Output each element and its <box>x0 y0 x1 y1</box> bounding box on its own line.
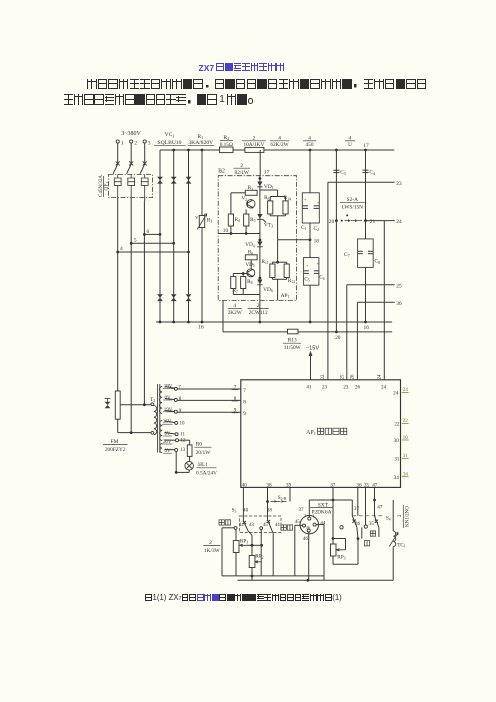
lamp HL1 <box>185 462 194 471</box>
wire 44b branch <box>271 531 274 533</box>
wire conn right <box>316 524 324 526</box>
transformer T2 secondary b <box>160 421 163 441</box>
svg-text:8: 8 <box>243 399 246 405</box>
svg-text:30: 30 <box>394 438 400 444</box>
svg-text:7: 7 <box>243 388 246 394</box>
switch S4 contact a <box>352 516 357 528</box>
wire V2 base <box>245 210 247 215</box>
capacitor C1 plates <box>302 205 308 207</box>
svg-text:26: 26 <box>351 374 356 380</box>
svg-text:20: 20 <box>335 335 341 341</box>
svg-text:RP2: RP2 <box>255 554 263 560</box>
svg-text:37: 37 <box>354 506 360 512</box>
contact 45a <box>260 527 263 530</box>
wire V3 base <box>233 273 247 275</box>
wire tap9 <box>165 411 175 412</box>
svg-text:41: 41 <box>306 385 312 391</box>
fuse FU <box>245 147 264 152</box>
svg-text:45: 45 <box>295 519 301 525</box>
svg-text:R6: R6 <box>248 250 253 256</box>
wire phase 1 to breaker <box>117 143 119 162</box>
node 6 <box>143 233 146 236</box>
wire tap10 <box>165 421 175 423</box>
wire tap7 <box>165 387 175 389</box>
wire line 20 <box>223 331 392 333</box>
svg-text:KN1/2NO: KN1/2NO <box>405 506 410 527</box>
capacitor bank C1 C2 frame <box>302 193 319 223</box>
svg-text:R0: R0 <box>196 442 203 448</box>
svg-text:VD6: VD6 <box>263 287 273 293</box>
wire node20 down <box>335 221 337 332</box>
svg-text:V: V <box>195 215 199 220</box>
capacitor C5 plates <box>304 270 309 272</box>
svg-text:26: 26 <box>355 385 361 391</box>
svg-text:3~380V: 3~380V <box>121 131 141 137</box>
wire tap8 <box>165 399 175 400</box>
svg-text:9: 9 <box>243 411 246 417</box>
svg-text:+: + <box>304 197 307 202</box>
svg-text:8: 8 <box>179 397 182 402</box>
bus junction <box>259 149 262 152</box>
svg-text:C6: C6 <box>319 276 324 281</box>
switch S3 box <box>240 516 282 533</box>
wire tap12 <box>165 439 176 441</box>
capacitor bank C5 C6 frame <box>304 258 319 286</box>
wire RP1 bottom <box>235 553 237 576</box>
svg-text:43: 43 <box>249 523 254 528</box>
svg-text:35: 35 <box>364 482 370 488</box>
wire tap12 to R0 <box>179 439 190 441</box>
circuit breaker QF1 box <box>109 175 153 198</box>
svg-text:62K/2W: 62K/2W <box>270 142 288 148</box>
input terminal 2 <box>130 140 133 143</box>
svg-text:2K2W: 2K2W <box>228 310 242 316</box>
svg-text:39: 39 <box>286 482 292 488</box>
svg-text:C3: C3 <box>340 170 346 176</box>
resistor R4 <box>228 214 233 226</box>
svg-text:1K/3W: 1K/3W <box>204 548 220 554</box>
transformer T2 primary <box>151 403 154 406</box>
wire pin39 down <box>289 487 291 501</box>
svg-text:VC1: VC1 <box>165 132 175 138</box>
wire R4 R5 bottoms <box>230 226 232 234</box>
svg-text:24: 24 <box>381 385 387 391</box>
capacitor C7 plates <box>358 250 363 252</box>
wire bus to C1C2 bank <box>309 150 311 193</box>
transistor V3 <box>247 269 255 277</box>
bus junction <box>364 149 367 152</box>
svg-text:37: 37 <box>298 507 304 513</box>
svg-text:21: 21 <box>370 219 376 225</box>
svg-text:40: 40 <box>243 508 249 514</box>
capacitor C8 plates <box>368 250 373 252</box>
wire pin38 down <box>267 487 269 519</box>
resistor R5 <box>244 214 249 226</box>
svg-text:C2: C2 <box>314 226 320 232</box>
svg-text:11/50W: 11/50W <box>284 345 301 351</box>
wire 9 to AP <box>178 411 241 413</box>
capacitor C3 <box>333 169 339 171</box>
fan symbol <box>105 402 111 409</box>
svg-text:R13: R13 <box>288 338 297 344</box>
wire below breaker <box>117 198 119 202</box>
rectifier column 3 <box>188 150 190 322</box>
wire bank2 to bus16 <box>309 285 311 322</box>
resistor R0 <box>187 445 192 457</box>
svg-text:RP3: RP3 <box>337 554 345 560</box>
trigger module B2 box <box>218 176 296 301</box>
connector pin bottom <box>307 529 310 532</box>
svg-text:24: 24 <box>393 391 399 397</box>
suppressor element lower <box>171 294 177 301</box>
breaker thermal element <box>128 175 135 198</box>
transformer T2 secondary a <box>159 387 162 414</box>
suppressor element lower <box>186 294 192 301</box>
svg-text:12: 12 <box>181 439 187 444</box>
resistor R6a <box>268 201 273 214</box>
svg-text:S2-A: S2-A <box>347 197 358 203</box>
svg-text:47: 47 <box>377 505 383 511</box>
capacitor bank C7 C8 frame <box>358 239 374 268</box>
rectifier column 1 <box>159 150 161 322</box>
svg-text:450: 450 <box>306 142 314 148</box>
wire below breaker <box>130 198 132 202</box>
svg-text:17: 17 <box>264 169 270 175</box>
svg-text:3: 3 <box>148 140 151 146</box>
svg-text:0.5A/24V: 0.5A/24V <box>196 471 217 477</box>
wire contact b down <box>378 528 380 538</box>
capacitor C6 plates <box>314 270 319 272</box>
wire RP1 wiper line <box>246 544 261 546</box>
wire R6a R14 bottom <box>269 214 271 216</box>
svg-text:36: 36 <box>355 521 361 527</box>
suppressor element upper <box>157 177 163 184</box>
wire FM bottom <box>117 419 119 432</box>
svg-text:AP1: AP1 <box>281 293 290 299</box>
capacitor C4 <box>363 169 369 171</box>
svg-text:R11: R11 <box>261 259 268 265</box>
wire R11 R12 top <box>272 261 286 263</box>
weld label <box>364 541 369 546</box>
svg-text:U: U <box>348 142 352 148</box>
svg-text:20/1W: 20/1W <box>196 450 210 456</box>
wire 36 <box>357 301 394 303</box>
svg-text:11: 11 <box>180 433 185 438</box>
svg-text:10A/1KV: 10A/1KV <box>243 142 264 148</box>
svg-text:QF1: QF1 <box>104 182 110 191</box>
wire T2 primary bottom <box>118 432 151 434</box>
svg-text:10: 10 <box>180 422 186 427</box>
svg-text:VD1: VD1 <box>264 184 274 190</box>
connector pin left <box>303 524 306 527</box>
svg-text:−15V: −15V <box>306 345 319 351</box>
breaker contact pole 1 <box>113 163 118 174</box>
bus junction <box>309 149 312 152</box>
fan motor FM <box>115 391 120 419</box>
paragraph line 1 <box>87 78 428 96</box>
svg-text:44: 44 <box>275 523 280 528</box>
potentiometer RP3 <box>331 544 337 556</box>
svg-text:2: 2 <box>134 140 137 146</box>
wire pin35 down <box>365 487 367 525</box>
suppressor element upper <box>171 177 177 184</box>
wire contact a down <box>357 527 358 538</box>
wire R7 R8 bottoms <box>232 289 234 295</box>
breaker contact pole 2 <box>127 163 132 174</box>
svg-text:5: 5 <box>134 238 137 244</box>
svg-text:36: 36 <box>306 525 310 530</box>
svg-text:RP1: RP1 <box>240 538 248 544</box>
title ZX7 inverter welder working principle <box>199 63 285 73</box>
wire T2 primary top <box>120 404 151 406</box>
bus junction <box>335 149 338 152</box>
svg-text:AP1: AP1 <box>306 430 316 436</box>
resistor R12 <box>284 264 289 278</box>
svg-text:R8: R8 <box>247 279 252 285</box>
wire RP1 top <box>235 529 237 540</box>
wire below breaker <box>144 198 146 202</box>
svg-text:24: 24 <box>396 219 402 225</box>
varistor R3 branch wire <box>201 150 203 322</box>
wire 25 <box>347 284 395 286</box>
wire C7C8 to bus16 <box>365 267 367 322</box>
wire node21 to C7C8 <box>365 221 367 239</box>
wire pin47 down <box>374 487 376 515</box>
svg-text:VD5: VD5 <box>245 262 255 268</box>
wire conn bottom <box>308 532 310 580</box>
svg-text:23: 23 <box>322 385 328 391</box>
svg-text:38: 38 <box>267 508 273 514</box>
diode VD4 <box>257 242 262 247</box>
wire lamp bottom <box>188 470 190 472</box>
bus junction <box>201 149 204 152</box>
breaker contact pole 3 <box>140 163 145 174</box>
svg-text:LWS/15N: LWS/15N <box>342 205 364 211</box>
switch S2-B <box>266 500 269 503</box>
wire RP3 loop <box>333 538 346 540</box>
input terminal 3 <box>143 140 146 143</box>
breaker thermal element <box>141 175 148 198</box>
svg-text:46: 46 <box>303 536 309 542</box>
diode VD6 <box>257 280 262 285</box>
svg-text:4: 4 <box>120 246 123 252</box>
paragraph line 2 <box>64 94 258 112</box>
wire 43 down <box>248 531 250 533</box>
wire pin40 down <box>242 487 244 521</box>
svg-text:47: 47 <box>372 482 378 488</box>
svg-text:B2: B2 <box>218 169 225 175</box>
svg-text:10: 10 <box>223 228 229 234</box>
wire 37 to S4 <box>351 500 353 516</box>
wire TC1 down <box>392 547 394 581</box>
svg-text:16: 16 <box>198 324 204 330</box>
wire phase 2 to breaker <box>130 143 132 162</box>
wire 24 <box>366 220 395 222</box>
svg-text:200FZY2: 200FZY2 <box>105 447 126 453</box>
resistor R14 <box>283 201 288 214</box>
wire R6b to V3 <box>250 260 252 269</box>
wire 47 right down <box>392 500 394 531</box>
svg-text:2: 2 <box>398 514 403 517</box>
hand label <box>370 531 375 536</box>
node 4 <box>116 251 119 254</box>
svg-text:34: 34 <box>394 475 400 481</box>
svg-text:36: 36 <box>356 482 362 488</box>
wire C4 branch <box>365 150 367 221</box>
svg-text:C5: C5 <box>304 277 309 282</box>
svg-text:2CW112: 2CW112 <box>249 310 268 316</box>
varistor R3 <box>199 216 204 228</box>
wire pin37 down <box>332 487 334 500</box>
wire phase3 down <box>143 201 145 405</box>
svg-text:R6: R6 <box>264 195 269 201</box>
svg-text:35: 35 <box>369 521 375 527</box>
svg-text:C4: C4 <box>369 170 375 176</box>
wire -15V to pin41 <box>310 353 312 380</box>
wire phase1 down <box>117 201 119 391</box>
wire R7a left leg <box>231 192 245 194</box>
diode VD1 <box>257 182 262 187</box>
svg-text:7: 7 <box>178 385 181 390</box>
transformer TC1 <box>393 531 396 547</box>
svg-text:S4: S4 <box>386 515 391 521</box>
svg-text:VD4: VD4 <box>245 242 255 248</box>
node 5 <box>130 242 133 245</box>
wire B2 center leg down <box>259 300 261 322</box>
transistor V2 <box>247 200 255 208</box>
capacitor C2 plates <box>314 205 320 207</box>
suppressor element lower <box>157 294 163 301</box>
resistor R8 <box>241 277 246 289</box>
wire DC top bus <box>160 149 394 151</box>
svg-text:25: 25 <box>396 283 402 289</box>
resistor R7a <box>245 190 257 195</box>
remote label left <box>219 520 224 525</box>
wire 8 to AP <box>178 399 241 401</box>
switch S2-A contacts <box>335 219 338 222</box>
svg-text:23: 23 <box>343 385 349 391</box>
svg-text:2: 2 <box>209 540 212 546</box>
svg-text:20: 20 <box>329 219 335 225</box>
contact 35 terminal <box>364 525 367 528</box>
svg-text:24: 24 <box>378 374 383 380</box>
svg-text:1: 1 <box>121 140 124 146</box>
svg-text:44: 44 <box>239 523 244 528</box>
wire bank to node 18 <box>309 223 311 258</box>
wire 37 horizontal <box>309 499 352 501</box>
wire pin36 down <box>357 487 359 515</box>
svg-text:TC1: TC1 <box>397 542 406 548</box>
wire SXT left feed <box>295 524 303 526</box>
wire conn top <box>308 500 310 517</box>
contact 44a <box>234 527 237 530</box>
svg-text:C7: C7 <box>344 252 350 258</box>
svg-text:R12: R12 <box>288 278 295 284</box>
breaker thermal element <box>114 175 121 198</box>
svg-text:22: 22 <box>321 374 326 380</box>
resistor R7 <box>231 277 236 289</box>
connector pin right <box>313 523 316 526</box>
svg-text:25: 25 <box>341 374 346 380</box>
potentiometer RP2 <box>249 556 255 568</box>
svg-text:P2DK6A: P2DK6A <box>311 509 331 515</box>
control board AP1 box <box>241 380 401 488</box>
transformer T2 core <box>157 384 159 453</box>
wire node18 to B2 <box>278 239 310 241</box>
input terminal 1 <box>116 140 119 143</box>
svg-text:VT3: VT3 <box>264 223 273 229</box>
wire tap11 <box>165 433 176 435</box>
connector SXT body <box>300 516 318 534</box>
resistor R2 <box>220 147 234 153</box>
svg-text:31: 31 <box>394 457 400 463</box>
svg-text:R5: R5 <box>250 217 255 223</box>
svg-text:C1: C1 <box>301 225 307 231</box>
potentiometer RP1 <box>233 541 239 553</box>
svg-text:R4: R4 <box>235 217 240 223</box>
wire contact44 left <box>222 527 234 529</box>
wire bus 16 <box>156 321 392 323</box>
wire phase 3 to breaker <box>144 143 146 162</box>
wire R0 to HL1 <box>189 456 191 461</box>
svg-text:S3: S3 <box>232 508 237 514</box>
bus junction <box>187 149 190 152</box>
svg-text:S2-B: S2-B <box>278 495 287 501</box>
svg-text:V2: V2 <box>241 196 247 202</box>
svg-text:45: 45 <box>263 523 268 528</box>
wire tap13 <box>165 449 175 451</box>
transformer T2 secondary c <box>160 444 162 453</box>
wire B2 left leg down <box>222 300 224 332</box>
wire R11 R12 bottom <box>271 278 273 280</box>
caption <box>145 593 342 604</box>
wire bus to B2 <box>259 150 261 176</box>
rectifier column 2 <box>173 150 175 322</box>
svg-text:13: 13 <box>180 448 186 453</box>
svg-text:18: 18 <box>314 238 320 244</box>
node 10 wire <box>218 233 260 235</box>
remote label right <box>281 525 286 530</box>
wire C3 branch <box>335 150 337 221</box>
bottom rail upper <box>222 575 324 577</box>
wire B2 center line <box>259 176 261 301</box>
svg-text:C8: C8 <box>375 259 381 265</box>
wire R6a R14 top <box>270 196 285 198</box>
connector pin top <box>308 517 311 520</box>
svg-text:23: 23 <box>396 181 402 187</box>
svg-text:FM: FM <box>111 439 119 445</box>
thyristor VT3 <box>257 214 262 219</box>
svg-text:44: 44 <box>320 520 326 526</box>
wire 45 branch <box>260 530 262 576</box>
svg-text:36: 36 <box>396 301 402 307</box>
svg-text:T2: T2 <box>150 397 155 403</box>
terminal ring 44 <box>340 526 343 529</box>
svg-text:R3: R3 <box>248 185 253 191</box>
svg-text:0.15Ω: 0.15Ω <box>220 142 233 148</box>
svg-text:22: 22 <box>394 422 400 428</box>
svg-text:16: 16 <box>364 325 370 331</box>
wire pin37 to RP3 <box>332 500 334 544</box>
svg-text:9: 9 <box>179 409 182 414</box>
svg-text:HL1: HL1 <box>198 462 208 468</box>
wire phase2 down <box>130 201 132 433</box>
svg-text:R3: R3 <box>207 218 213 224</box>
wire 7 to AP <box>178 388 241 390</box>
switch S4 link <box>352 515 382 517</box>
wire RP3 bottom <box>332 556 334 564</box>
resistor R13 <box>288 329 299 334</box>
